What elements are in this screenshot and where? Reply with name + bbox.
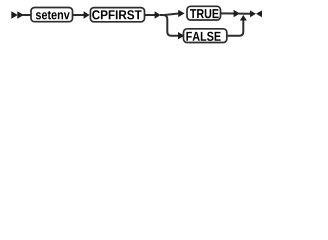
arrowhead merge xyxy=(234,10,240,17)
keyword box setenv xyxy=(31,8,73,22)
wire main to TRUE (slight rise) xyxy=(160,14,179,16)
arrowhead up xyxy=(240,15,247,21)
wire up merge xyxy=(227,20,244,36)
start symbol xyxy=(11,11,23,18)
wire xyxy=(221,12,235,14)
arrowhead xyxy=(155,11,161,18)
label FALSE xyxy=(186,32,220,41)
label TRUE xyxy=(190,9,219,18)
wire xyxy=(239,13,251,15)
end symbol xyxy=(250,10,262,17)
keyword box TRUE xyxy=(187,6,221,20)
branch down wire xyxy=(164,15,179,36)
arrowhead xyxy=(178,10,184,17)
arrowhead into FALSE xyxy=(178,32,184,39)
label CPFIRST xyxy=(92,10,141,19)
wire xyxy=(73,14,85,16)
wire xyxy=(145,14,156,16)
arrowhead xyxy=(84,11,90,18)
wire xyxy=(23,14,32,16)
label setenv xyxy=(36,11,70,20)
keyword box CPFIRST xyxy=(90,8,144,22)
keyword box FALSE xyxy=(184,29,227,43)
